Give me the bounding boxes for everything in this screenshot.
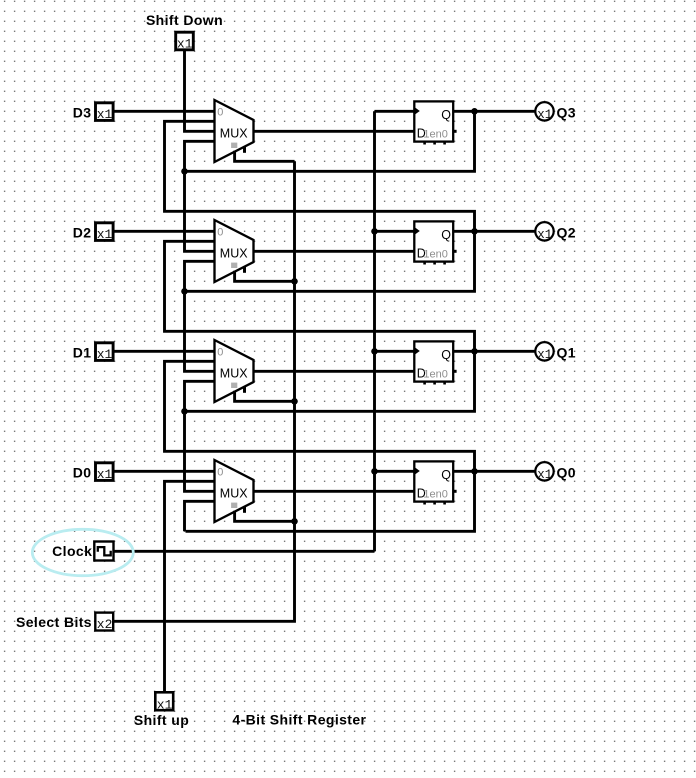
wire FF1 Q to output — [454, 470, 536, 473]
node junction select row 0 — [291, 518, 298, 525]
svg-text:1en0: 1en0 — [423, 128, 447, 140]
node junction Q3 feedback — [181, 168, 188, 175]
mux MUX2 select pin stub — [243, 386, 246, 393]
wire MUX3 select to bus — [235, 271, 295, 282]
svg-text:Q2: Q2 — [557, 225, 576, 241]
wire select bus — [113, 161, 295, 621]
svg-text:MUX: MUX — [220, 487, 248, 501]
wire clock bus — [373, 111, 376, 551]
node junction Q2 output — [471, 228, 478, 235]
wire MUX3 out to FF D — [254, 250, 415, 253]
svg-text:Clock: Clock — [52, 543, 92, 559]
svg-text:Shift Down: Shift Down — [146, 12, 223, 28]
node junction select row 2 — [291, 278, 298, 285]
svg-text:Q: Q — [441, 108, 451, 122]
wire MUX4 out to FF D — [254, 130, 415, 133]
wire D0 to MUX in0 — [114, 470, 214, 473]
mux MUX2 (1) — [215, 340, 254, 402]
flip-flop FF4 (bit 3) — [414, 101, 456, 144]
svg-text:D3: D3 — [73, 104, 92, 120]
svg-text:MUX: MUX — [220, 127, 248, 141]
svg-text:Shift up: Shift up — [134, 712, 189, 728]
wire Q1 feedback — [186, 351, 475, 411]
flip-flop FF2 (bit 1) — [414, 341, 456, 384]
wire MUX1 select to bus — [235, 511, 295, 522]
wire MUX2 in3 hold / chain to in2 below — [185, 261, 215, 371]
svg-text:D0: D0 — [73, 464, 92, 480]
svg-text:x1: x1 — [157, 697, 173, 712]
svg-text:x1: x1 — [97, 107, 113, 122]
mux MUX3 enable marker — [231, 263, 237, 268]
flip-flop FF3 (bit 2) — [414, 221, 456, 264]
mux MUX1 enable marker — [231, 503, 237, 508]
svg-text:D1: D1 — [73, 344, 92, 360]
wire Q0 feedback — [186, 471, 475, 531]
svg-text:D2: D2 — [73, 224, 92, 240]
svg-text:0: 0 — [217, 107, 223, 119]
svg-text:Q: Q — [441, 348, 451, 362]
wire D1 to MUX in0 — [114, 350, 214, 353]
node junction select row 1 — [291, 398, 298, 405]
output pin Q2 — [535, 222, 553, 242]
wire MUX3 in1 from Q2 — [165, 121, 475, 229]
wire clock stub FF2 — [375, 350, 415, 353]
svg-text:0: 0 — [217, 347, 223, 359]
input pin D1 x1 — [96, 343, 114, 362]
wire clock feed — [113, 550, 375, 553]
svg-text:0: 0 — [217, 227, 223, 239]
svg-text:x1: x1 — [537, 348, 552, 362]
input pin D2 x1 — [96, 223, 114, 242]
mux MUX4 (3) — [215, 100, 254, 162]
wire MUX0 in1 from Shift up — [165, 481, 215, 691]
svg-text:Q1: Q1 — [557, 345, 576, 361]
svg-text:x1: x1 — [537, 468, 552, 482]
input pin Clock — [94, 542, 113, 561]
svg-text:x2: x2 — [97, 617, 113, 632]
mux MUX1 select pin stub — [243, 506, 246, 513]
wire D2 to MUX in0 — [114, 230, 214, 233]
svg-text:1en0: 1en0 — [423, 488, 447, 500]
mux MUX3 select pin stub — [243, 266, 246, 273]
svg-text:Select Bits: Select Bits — [16, 614, 92, 630]
wire Shift Down to MUX1 in2 — [185, 50, 214, 132]
svg-text:x1: x1 — [537, 228, 552, 242]
wire FF2 Q to output — [454, 350, 536, 353]
node junction Q3 output — [471, 108, 478, 115]
wire clock stub FF3 — [375, 230, 415, 233]
mux MUX2 enable marker — [231, 383, 237, 388]
node junction Q0 output — [471, 468, 478, 475]
svg-text:x1: x1 — [537, 108, 552, 122]
svg-text:x1: x1 — [177, 36, 193, 51]
svg-text:x1: x1 — [97, 227, 113, 242]
mux MUX4 enable marker — [231, 143, 237, 148]
wire MUX3 in3 hold / chain to in2 below — [185, 141, 215, 251]
wire clock stub FF1 — [375, 470, 415, 473]
input pin Select Bits x2 — [95, 613, 113, 632]
wire clock stub FF4 — [375, 110, 415, 113]
wire Q2 feedback — [186, 231, 475, 291]
wire MUX2 in1 from Q1 — [165, 241, 475, 349]
output pin Q1 — [535, 342, 553, 362]
input pin Shift up x1 — [155, 692, 173, 712]
wire MUX2 out to FF D — [254, 370, 415, 373]
svg-text:MUX: MUX — [220, 247, 248, 261]
mux MUX1 (0) — [215, 460, 254, 522]
node junction Q1 output — [471, 348, 478, 355]
node junction clock row 1 — [371, 348, 378, 355]
svg-text:Q3: Q3 — [557, 105, 576, 121]
svg-text:4-Bit Shift Register: 4-Bit Shift Register — [232, 712, 366, 728]
node junction clock row 0 — [371, 468, 378, 475]
mux MUX4 select pin stub — [243, 146, 246, 153]
svg-text:x1: x1 — [97, 347, 113, 362]
input pin Shift Down x1 — [176, 32, 194, 51]
output pin Q3 — [535, 102, 553, 122]
svg-text:Q: Q — [441, 468, 451, 482]
wire MUX1 out to FF D — [254, 490, 415, 493]
wire MUX2 select to bus — [235, 391, 295, 402]
svg-text:0: 0 — [217, 467, 223, 479]
wire D3 to MUX in0 — [114, 110, 214, 113]
wire FF4 Q to output — [454, 110, 536, 113]
node junction Q1 feedback — [181, 408, 188, 415]
highlight ellipse around Clock — [32, 529, 133, 575]
node junction Q2 feedback — [181, 288, 188, 295]
svg-text:1en0: 1en0 — [423, 248, 447, 260]
wire MUX1 in3 hold / chain to in2 below — [185, 381, 215, 491]
wire MUX0 in3 hold — [185, 501, 215, 531]
wire MUX4 select to bus — [235, 151, 295, 162]
input pin D0 x1 — [96, 463, 114, 482]
mux MUX3 (2) — [215, 220, 254, 282]
svg-text:Q0: Q0 — [557, 465, 576, 481]
svg-text:x1: x1 — [97, 467, 113, 482]
output pin Q0 — [535, 462, 553, 482]
flip-flop FF1 (bit 0) — [414, 461, 456, 504]
node junction clock row 2 — [371, 228, 378, 235]
wire Q3 feedback — [186, 111, 475, 171]
svg-text:Q: Q — [441, 228, 451, 242]
wire MUX1 in1 from Q0 — [165, 361, 475, 469]
input pin D3 x1 — [96, 103, 114, 122]
svg-text:MUX: MUX — [220, 367, 248, 381]
svg-text:1en0: 1en0 — [423, 368, 447, 380]
wire FF3 Q to output — [454, 230, 536, 233]
